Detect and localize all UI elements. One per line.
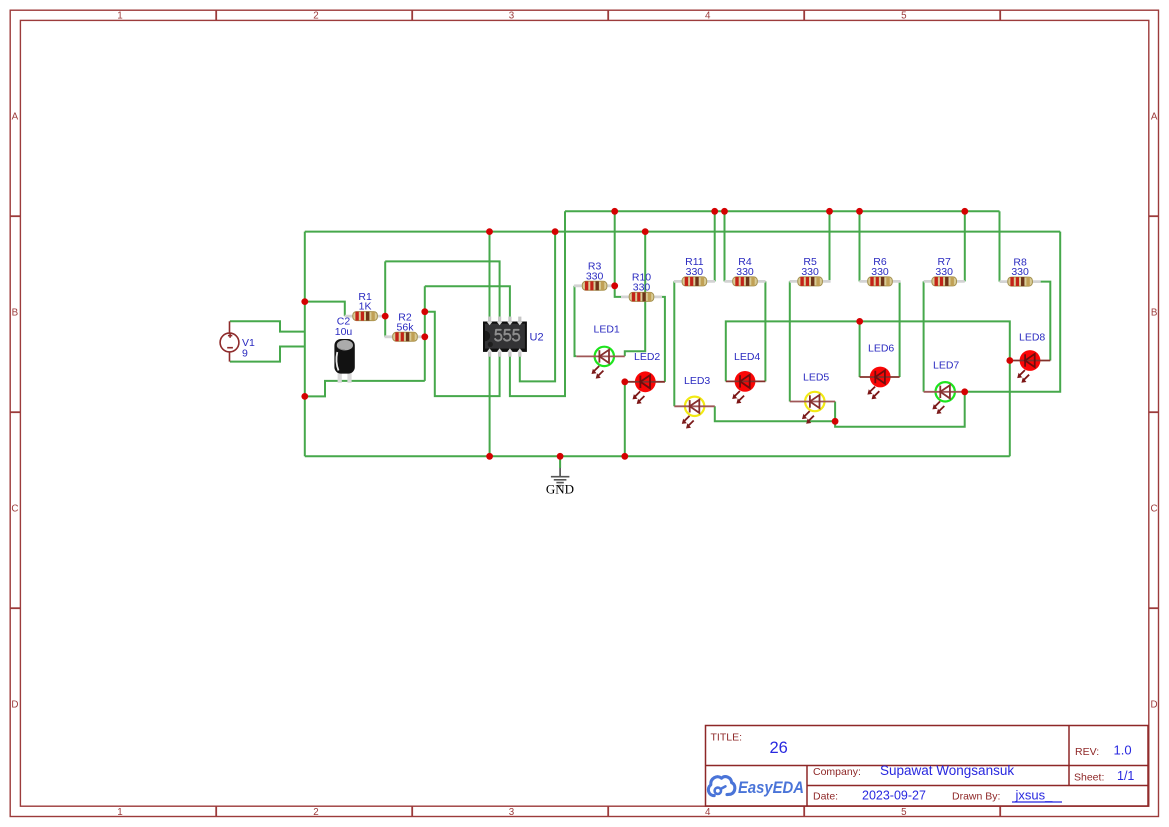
svg-text:3: 3	[509, 11, 515, 22]
svg-text:2: 2	[313, 807, 318, 818]
svg-text:Drawn By:: Drawn By:	[952, 790, 1000, 802]
svg-text:TITLE:: TITLE:	[711, 732, 743, 744]
svg-text:U2: U2	[530, 332, 544, 344]
svg-text:2023-09-27: 2023-09-27	[862, 788, 926, 802]
svg-text:LED7: LED7	[933, 360, 959, 372]
svg-text:Supawat Wongsansuk: Supawat Wongsansuk	[880, 763, 1014, 778]
svg-text:330: 330	[633, 282, 651, 294]
svg-text:56k: 56k	[397, 321, 415, 333]
svg-text:4: 4	[705, 11, 711, 22]
svg-text:A: A	[12, 111, 19, 122]
svg-text:LED3: LED3	[684, 375, 710, 387]
svg-text:330: 330	[935, 266, 953, 278]
svg-text:C: C	[11, 503, 18, 514]
svg-text:1: 1	[117, 807, 122, 818]
svg-text:1K: 1K	[359, 301, 372, 313]
svg-text:LED2: LED2	[634, 351, 660, 363]
svg-text:1/1: 1/1	[1117, 769, 1134, 783]
svg-text:330: 330	[686, 266, 704, 278]
svg-text:LED6: LED6	[868, 343, 894, 355]
svg-text:C: C	[1151, 503, 1158, 514]
svg-text:LED5: LED5	[803, 372, 829, 384]
svg-text:330: 330	[801, 266, 819, 278]
svg-text:1.0: 1.0	[1114, 742, 1132, 757]
svg-text:4: 4	[705, 807, 711, 818]
svg-text:GND: GND	[546, 482, 574, 497]
svg-text:330: 330	[736, 266, 754, 278]
svg-text:26: 26	[770, 739, 788, 757]
svg-text:LED8: LED8	[1019, 332, 1045, 344]
svg-text:LED4: LED4	[734, 351, 760, 363]
svg-text:5: 5	[901, 807, 907, 818]
svg-text:B: B	[12, 307, 19, 318]
svg-text:Date:: Date:	[813, 790, 838, 802]
svg-text:Sheet:: Sheet:	[1074, 772, 1104, 784]
svg-text:2: 2	[313, 11, 318, 22]
svg-text:REV:: REV:	[1075, 746, 1099, 758]
svg-text:D: D	[1151, 699, 1158, 710]
svg-text:jxsus_: jxsus_	[1015, 787, 1054, 802]
svg-text:330: 330	[586, 270, 604, 282]
svg-text:3: 3	[509, 807, 515, 818]
svg-text:Company:: Company:	[813, 766, 861, 778]
svg-text:A: A	[1151, 111, 1158, 122]
svg-text:330: 330	[1011, 266, 1029, 278]
svg-text:LED1: LED1	[594, 324, 620, 336]
svg-text:B: B	[1151, 307, 1158, 318]
svg-text:1: 1	[117, 11, 122, 22]
svg-text:330: 330	[871, 266, 889, 278]
svg-text:5: 5	[901, 11, 907, 22]
svg-text:9: 9	[242, 348, 248, 360]
svg-text:EasyEDA: EasyEDA	[738, 779, 804, 797]
svg-text:D: D	[11, 699, 18, 710]
svg-text:10u: 10u	[335, 326, 353, 338]
